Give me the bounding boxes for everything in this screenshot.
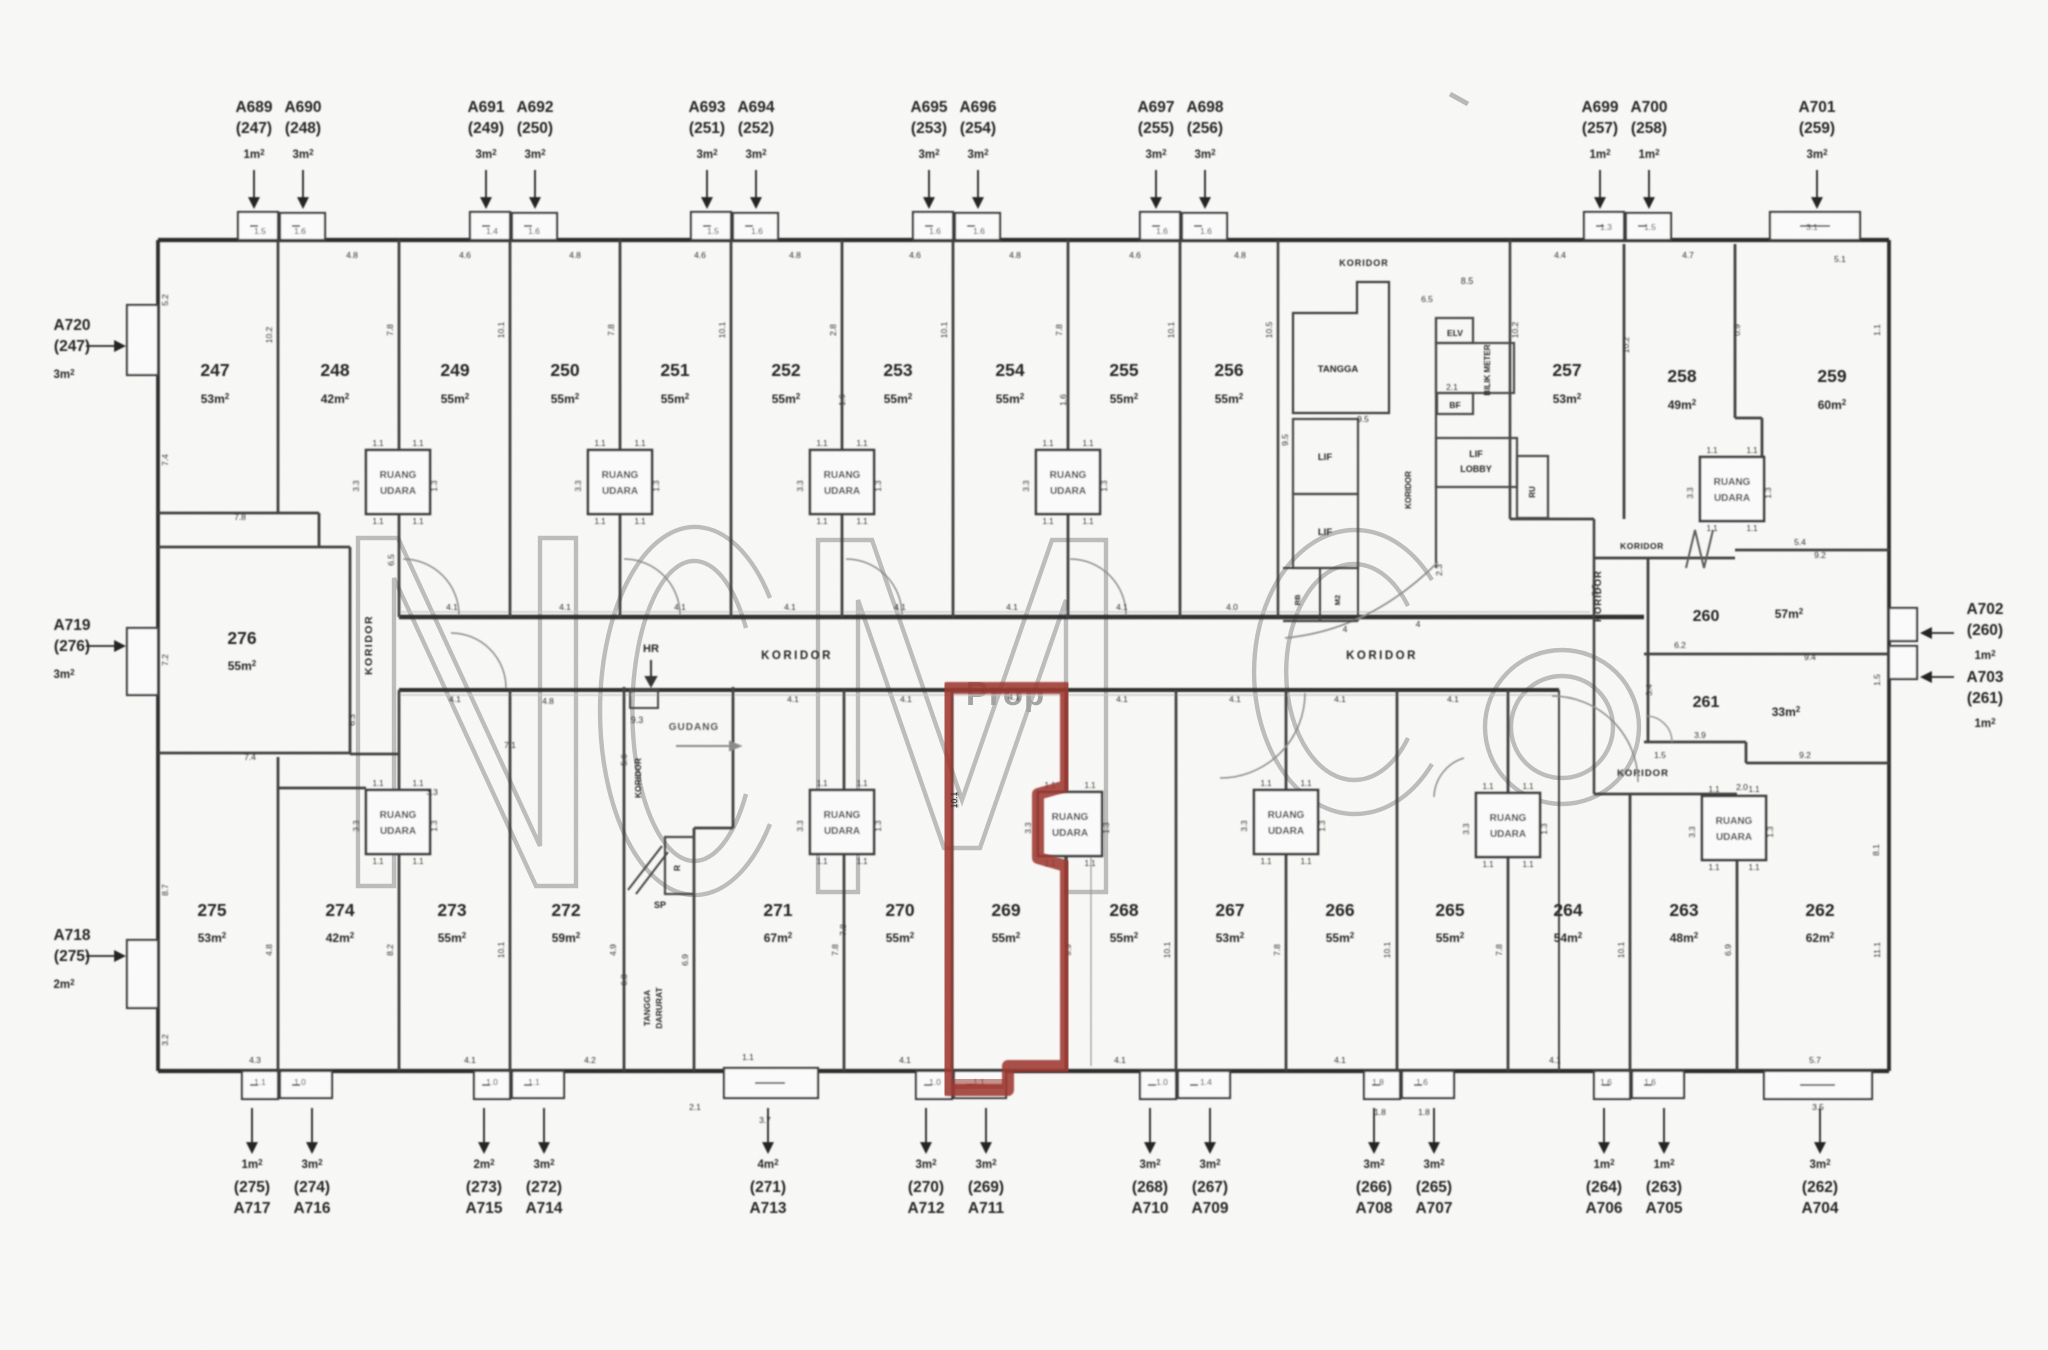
door pair A708/A707 (1364, 1071, 1400, 1099)
door arc unit 265 (1434, 758, 1464, 797)
ruang udara box 267|266 (1254, 790, 1318, 854)
ruang udara box 250|251 (588, 450, 652, 514)
wall 269|268 inner face (1090, 856, 1092, 1066)
wall: outer bottom (158, 1069, 1889, 1073)
wall: right corridor band bottom (1594, 557, 1735, 560)
core lower rooms (1283, 568, 1358, 621)
ruang udara box 263|262 (1702, 796, 1766, 860)
wall 265|264 upper (1507, 690, 1510, 793)
wall 251|252 (730, 240, 733, 617)
door label A716 (274) (308, 1108, 317, 1152)
door pair A710/A709 (1140, 1071, 1176, 1099)
door A720 (127, 305, 158, 375)
door label A708 (266) (1370, 1108, 1379, 1152)
ruang udara box 271|270 (810, 790, 874, 854)
wall 258|259 upper (1734, 244, 1737, 418)
ruang udara box 269 (1038, 792, 1102, 856)
ruang udara box 254|255 (1036, 450, 1100, 514)
door A713 (724, 1068, 818, 1098)
room ELV box (1436, 318, 1473, 343)
wall 274|273 upper (398, 690, 401, 790)
wall 272|stairs (623, 687, 626, 1071)
stairs door box (630, 690, 658, 708)
wall: 276 top (158, 546, 319, 549)
ruang udara box 248|249 (366, 450, 430, 514)
door arc unit 255 (1070, 559, 1126, 615)
scan ghost below corridor bottom (399, 694, 1559, 696)
wall 267|266 upper (1285, 690, 1288, 790)
red highlight outline unit 269 (947, 688, 1066, 1090)
door A718 (127, 940, 158, 1008)
door pair A691/A692 (470, 212, 510, 240)
watermark NCMCo outline letters (358, 527, 1639, 895)
wall 274|273 lower (398, 854, 401, 1071)
wall: 274 top (278, 787, 366, 790)
shaft hatch right (1686, 530, 1713, 568)
wall: outer left (156, 240, 160, 1071)
wall 273|272 (509, 690, 512, 1071)
door arc unit 249 (403, 559, 459, 615)
wall 247|248 (277, 240, 280, 513)
wall: 276/vert corridor top joint (319, 546, 350, 549)
wall: corridor right/261 left (1647, 558, 1650, 742)
door pair A695/A696 (913, 212, 953, 240)
wall: outer top (158, 238, 1889, 242)
wall 252|253 upper (841, 240, 844, 450)
wall: 261 bottom left (1644, 741, 1746, 744)
wall: main corridor top (399, 615, 1644, 620)
wall 256|service core (1277, 240, 1280, 617)
wall 266|265 (1396, 690, 1399, 1071)
ruang udara box 265|264 (1476, 793, 1540, 857)
wall: 262 top (1746, 762, 1889, 765)
wall 264 left column (1558, 690, 1560, 1071)
door arc corridor 273 (451, 633, 506, 688)
stairs pointer arrow (676, 742, 740, 750)
wall 252|253 lower (841, 514, 844, 617)
lift lobby walls (1436, 438, 1517, 487)
wall: outer right (1887, 240, 1891, 1071)
wall 258|259 step (1735, 417, 1762, 420)
ruang udara box 252|253 (810, 450, 874, 514)
door pair A712/A711 (916, 1071, 952, 1099)
wall 267|266 lower (1285, 854, 1288, 1071)
door pair A715/A714 (474, 1071, 510, 1099)
door A703 (1889, 646, 1917, 679)
wall: vertical corridor cap (350, 753, 399, 756)
room TANGGA walls (1293, 282, 1389, 413)
wall: 276 bottom (158, 752, 350, 755)
door arc corridor right turn (1552, 696, 1638, 782)
door arc unit 251 (624, 559, 680, 615)
stairs R box (665, 837, 694, 894)
wall stairs jog (694, 827, 733, 830)
door A704 (1764, 1071, 1872, 1099)
door pair A693/A694 (691, 212, 731, 240)
wall 271|270 lower (843, 854, 846, 1071)
door arc 261 corner (1646, 716, 1672, 742)
door pair A717/A716 (242, 1071, 278, 1099)
wall 275|274 (277, 757, 280, 1071)
room BF box (1437, 393, 1473, 414)
door pair A699/A700 (1584, 212, 1624, 240)
ruang udara box 274|273 (366, 790, 430, 854)
wall 250|251 upper (619, 240, 622, 450)
wall 265|264 lower (1507, 858, 1510, 1071)
wall 253|254 (952, 240, 955, 617)
door label A709 (267) (1206, 1108, 1215, 1152)
door label A717 (275) (248, 1108, 257, 1152)
wall: 261 bottom step (1745, 742, 1748, 763)
room LIF upper (1293, 419, 1358, 494)
door A702 (1889, 608, 1917, 641)
wall 269|268 (1065, 691, 1068, 1071)
scan ghost above corridor top (399, 611, 1590, 613)
door label A712 (270) (922, 1108, 931, 1152)
room LIF lower (1293, 494, 1358, 568)
wall stairs|271 upper (732, 687, 735, 828)
lift shaft divider (1435, 318, 1437, 568)
wall 255|256 (1179, 240, 1182, 617)
wall stairs|271 lower (693, 828, 696, 1071)
wall 270|269 (951, 690, 954, 1071)
wall 249|250 (509, 240, 512, 617)
core RU box (1517, 456, 1548, 518)
small gray mark top right (1450, 94, 1468, 104)
room BILIK METER walls (1436, 343, 1514, 393)
wall: 247 bottom (158, 512, 319, 515)
wall 254|255 upper (1067, 240, 1070, 450)
door pair A689/A690 (238, 212, 278, 240)
door label A714 (272) (540, 1108, 549, 1152)
door label A707 (265) (1430, 1108, 1439, 1152)
wall 250|251 lower (619, 514, 622, 617)
wall: 276 right (349, 547, 352, 753)
ruang udara box 258|259 (1700, 457, 1764, 521)
door label A705 (263) (1660, 1108, 1669, 1152)
door label A706 (264) (1600, 1108, 1609, 1152)
wall 268|267 (1175, 690, 1178, 1071)
wall 258|259 lower (1761, 418, 1764, 457)
door arc unit 253 (846, 559, 902, 615)
wall 254|255 lower (1067, 514, 1070, 617)
wall: corridor step left of 276 (318, 513, 321, 547)
wall 263|262 (1736, 859, 1739, 1071)
wall 248|249 lower / corridor side (398, 514, 401, 617)
wall 264|263 (1629, 794, 1632, 1071)
wall: 260|261 (1644, 653, 1889, 656)
stairs diagonal treads (628, 846, 668, 894)
door A701 (1770, 212, 1860, 240)
wall 271|270 upper (843, 690, 846, 790)
door A719 (127, 628, 158, 695)
wall: right corridor left (1593, 519, 1596, 794)
wall 248|249 upper (398, 240, 401, 450)
core door swing arc (1285, 562, 1438, 638)
door pair A706/A705 (1594, 1071, 1630, 1099)
wall: 260 top (1735, 549, 1889, 552)
door label A711 (269) (982, 1108, 991, 1152)
wall: bottom-right corridor bottom (1594, 793, 1737, 796)
wall service core|257 (1509, 240, 1512, 519)
wall: right corridor top (1510, 518, 1594, 521)
HR arrow (646, 660, 656, 686)
door arc unit 267 (1220, 693, 1305, 778)
door label A715 (273) (480, 1108, 489, 1152)
red highlight door dip (952, 1079, 1004, 1089)
wall: main corridor bottom (399, 688, 1559, 692)
door label A704 (262) (1816, 1108, 1825, 1152)
door pair A697/A698 (1140, 212, 1180, 240)
core bottom wall (1283, 620, 1358, 622)
door label A713 (271) (764, 1108, 773, 1152)
wall 257|258 (1623, 244, 1626, 519)
door label A710 (268) (1146, 1108, 1155, 1152)
